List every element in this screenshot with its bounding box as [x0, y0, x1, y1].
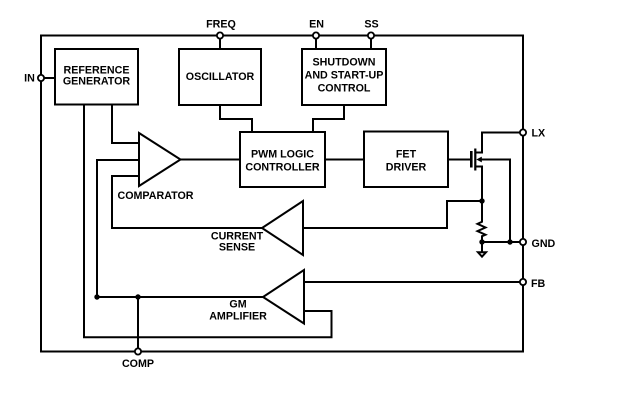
transistor Q1 power NMOS gate bar	[470, 151, 473, 168]
wire GM output node down to COMP	[137, 297, 139, 352]
junction resistor-GND node	[479, 239, 484, 244]
svg-text:OSCILLATOR: OSCILLATOR	[186, 71, 255, 83]
wire IN to reference generator	[41, 77, 55, 79]
box reference generator	[55, 49, 138, 105]
outer IC boundary box	[41, 36, 523, 352]
svg-text:FREQ: FREQ	[206, 19, 236, 31]
pin SS	[368, 32, 374, 38]
pin COMP	[135, 348, 141, 354]
svg-text:AND START-UP: AND START-UP	[305, 70, 384, 82]
svg-text:SENSE: SENSE	[219, 242, 255, 254]
wire reference generator to GM amplifier lower input	[84, 105, 332, 338]
wire FET driver to MOSFET gate	[448, 159, 471, 161]
op-amp GM amplifier	[263, 270, 304, 324]
junction body-GND node	[507, 239, 512, 244]
svg-text:GENERATOR: GENERATOR	[63, 76, 131, 88]
wire GM amplifier output to comparator input 2	[97, 160, 263, 297]
pin FB	[520, 279, 526, 285]
wire source node to current sense input	[303, 201, 482, 228]
svg-text:GM: GM	[229, 299, 246, 311]
svg-text:FB: FB	[531, 278, 546, 290]
pin EN	[313, 32, 319, 38]
transistor Q1 channel bar	[474, 149, 476, 171]
wire oscillator to PWM logic controller	[220, 105, 252, 132]
box shutdown and start-up control	[302, 49, 386, 105]
pin GND	[520, 239, 526, 245]
pin FREQ	[217, 32, 223, 38]
wire reference generator to comparator input 1	[112, 105, 139, 144]
svg-text:SS: SS	[364, 19, 378, 31]
wire SS to shutdown control	[370, 36, 372, 50]
ground symbol	[478, 242, 486, 257]
svg-text:CONTROL: CONTROL	[318, 83, 371, 95]
op-amp current sense amplifier	[262, 201, 303, 255]
wire GM amplifier input to FB	[304, 281, 523, 283]
box oscillator	[179, 49, 261, 105]
wire shutdown control to PWM logic controller	[313, 105, 344, 132]
svg-text:DRIVER: DRIVER	[386, 162, 427, 174]
svg-text:AMPLIFIER: AMPLIFIER	[209, 311, 267, 323]
wire MOSFET drain to LX	[476, 133, 523, 153]
svg-text:LX: LX	[532, 128, 547, 140]
svg-text:SHUTDOWN: SHUTDOWN	[313, 57, 376, 69]
pin IN	[38, 75, 44, 81]
junction GM output corner node	[94, 294, 99, 299]
wire resistor bottom to GND pin	[482, 241, 523, 243]
pin LX	[520, 129, 526, 135]
wire FREQ to oscillator	[219, 36, 221, 50]
svg-text:FET: FET	[396, 149, 417, 161]
wire current sense output to comparator input 3	[112, 176, 262, 228]
wire MOSFET source down to GND node	[476, 167, 482, 202]
resistor R1 sense resistor	[478, 201, 486, 242]
svg-text:EN: EN	[309, 19, 324, 31]
wire MOSFET body to GND line	[480, 160, 510, 243]
wire comparator output to PWM logic controller	[180, 159, 240, 161]
junction COMP branch node	[135, 294, 140, 299]
svg-text:COMPARATOR: COMPARATOR	[118, 190, 194, 202]
svg-text:PWM LOGIC: PWM LOGIC	[251, 149, 314, 161]
svg-text:GND: GND	[532, 238, 556, 250]
svg-text:IN: IN	[24, 73, 35, 85]
box FET driver	[364, 132, 448, 188]
wire PWM logic controller to FET driver	[325, 159, 364, 161]
wire EN to shutdown control	[315, 36, 317, 50]
svg-text:CONTROLLER: CONTROLLER	[245, 162, 319, 174]
op-amp comparator	[139, 133, 181, 186]
transistor Q1 body arrowhead	[476, 157, 482, 163]
box PWM logic controller U1	[240, 132, 325, 187]
svg-text:COMP: COMP	[122, 358, 154, 370]
junction source node	[479, 198, 484, 203]
